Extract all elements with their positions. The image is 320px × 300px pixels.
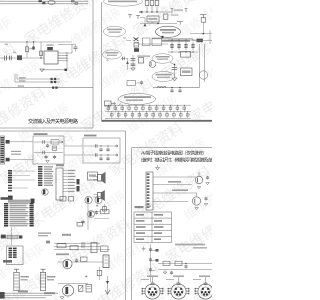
- crystal X901 chain: [134, 38, 139, 42]
- box R31: [101, 210, 110, 214]
- top-right panel bottom thick border: [102, 120, 213, 122]
- transistor Q13: [88, 211, 95, 218]
- wire: to junction: [126, 58, 128, 70]
- wire: down: [202, 22, 204, 33]
- transformer T801 above IC: [47, 47, 53, 50]
- M1 ground: [46, 160, 50, 162]
- diode D801 drop: [33, 42, 35, 50]
- connector XS2 block2: [8, 196, 13, 201]
- capacitor C805: [9, 56, 11, 61]
- module box M2: [83, 138, 120, 163]
- page background: [0, 0, 212, 300]
- tall box U12: [103, 255, 109, 268]
- capacitor C803 drop: [40, 42, 42, 58]
- cap C21: [95, 211, 98, 215]
- connector XS1 (left edge pin column): [0, 136, 5, 164]
- wire: bottom bus 2: [0, 295, 52, 297]
- capacitor C941: [170, 89, 173, 93]
- transistor Q10: [42, 189, 48, 195]
- wire: XS2 fanout: [12, 171, 35, 188]
- capacitor C810: [74, 44, 78, 51]
- label R801: [29, 48, 32, 50]
- capacitor bank columns: [170, 42, 194, 50]
- cloud note N4: [103, 50, 122, 59]
- cloud note N3: [104, 26, 126, 36]
- top-left panel bottom border: [0, 127, 93, 129]
- vertical rails right: [199, 44, 201, 88]
- wire: long video net: [153, 87, 200, 89]
- bead FB2: [51, 81, 53, 83]
- wire: stub up1: [16, 74, 18, 79]
- arrow A1: [144, 23, 147, 26]
- diode chain right: [107, 276, 109, 294]
- component R950: [197, 39, 203, 43]
- ground G21 under table: [142, 247, 146, 251]
- wire labels: [168, 181, 181, 183]
- component C950: [201, 18, 205, 23]
- module box M1: [33, 136, 64, 164]
- mid amp cluster: [87, 204, 89, 230]
- wire: out 3: [153, 192, 196, 194]
- bracket right: [177, 22, 183, 25]
- ground G3: [172, 78, 177, 81]
- IC U10 tall box: [56, 168, 63, 200]
- wire: amp links: [88, 211, 101, 213]
- wire: XS4 down: [11, 227, 13, 245]
- node diamond: [64, 69, 67, 71]
- ground G10: [60, 297, 64, 299]
- wire: AC input top rail line2: [0, 3, 88, 5]
- bottom-right panel left border: [131, 148, 133, 300]
- wire: bus h: [139, 11, 172, 13]
- wire: chain to right: [139, 43, 168, 45]
- plus marks: [85, 275, 87, 277]
- IC XS4 right pin column: [30, 203, 34, 227]
- capacitor C942: [178, 89, 181, 93]
- wire: pin bus down: [66, 53, 68, 70]
- DIN plug P3: [195, 283, 217, 299]
- component D901: [164, 14, 168, 19]
- node dots bus: [146, 11, 147, 12]
- M1 signal path 1: [34, 141, 63, 143]
- labels row: [137, 55, 150, 57]
- top-left panel right border: [92, 0, 94, 128]
- balloon N5: [152, 54, 173, 64]
- M1 comp label: [51, 140, 59, 144]
- M2 path1: [84, 145, 118, 147]
- capacitor bank C9xx: rails: [168, 39, 198, 41]
- wire: AC input top rail line1: [0, 0, 88, 2]
- connector XS5: [7, 246, 24, 265]
- bead FB10: [6, 140, 10, 144]
- table cell texts: [136, 214, 164, 240]
- IC XS4 left pin column: [4, 203, 8, 227]
- comp C22: [81, 220, 84, 224]
- box IF1: [181, 52, 191, 58]
- wire: rectified DC rail: [0, 41, 72, 43]
- electrolytic C20: [104, 204, 106, 214]
- label bus left: [0, 292, 5, 299]
- table label: [135, 206, 144, 208]
- left vertical chain: [150, 244, 152, 282]
- pin grid rails: [105, 104, 191, 106]
- arrow left end: [139, 11, 142, 14]
- table: voltage table: [134, 212, 172, 243]
- IC XS4 label rows between: [10, 203, 29, 226]
- wire: output line B-: [15, 81, 60, 83]
- M1 vert caps: [46, 144, 49, 148]
- wire: to box1 top: [10, 141, 33, 143]
- svg-text:交流输入及开关电源电路: 交流输入及开关电源电路: [28, 118, 78, 125]
- pin grid row2: [111, 111, 190, 118]
- capacitor C930: [172, 67, 177, 69]
- bracket TP3: [171, 9, 188, 14]
- arrow A2: [126, 61, 129, 64]
- transistor cluster QA: [195, 176, 203, 184]
- wire: output line B+: [17, 78, 60, 80]
- box label value1: [143, 38, 151, 46]
- output stage: transistor Q15: [62, 285, 73, 296]
- ground G2: [131, 68, 135, 71]
- transistor Q12: [95, 196, 102, 203]
- transistor Q901: [149, 61, 156, 68]
- wire: mid link: [151, 22, 153, 23]
- cluster: top-center filter boxes R9xx: [145, 1, 149, 6]
- wire: under-balloon net: [152, 38, 193, 40]
- component K1 with arrow: [105, 101, 112, 106]
- label VCC: [5, 44, 9, 46]
- speaker SP2: [94, 190, 105, 201]
- capacitor C804: [5, 56, 7, 61]
- balloon note N2 (ellipse with text): [156, 26, 181, 37]
- wire: long bottom net: [0, 87, 93, 89]
- wire: second cross: [193, 39, 212, 41]
- DIN plug P1: [142, 283, 164, 299]
- label nets: [11, 151, 21, 152]
- M1 cap 1: [42, 140, 44, 144]
- component cluster RV1: [127, 81, 136, 86]
- capacitor C806 electrolytic: [17, 55, 22, 60]
- chain C23: [99, 267, 101, 280]
- node J1: [26, 41, 27, 42]
- balloon note N1 (top, cropped): [104, 0, 143, 6]
- test point TP2: [136, 16, 140, 19]
- fuse F801 on AC rail: [39, 0, 42, 2]
- wire: to box1 bottom: [10, 159, 33, 161]
- M1 cap 2: [42, 151, 44, 155]
- component R920: [139, 58, 144, 63]
- crystal Y1 vertical: [14, 269, 19, 272]
- net label strip: [8, 200, 30, 203]
- wire: right stub: [209, 30, 211, 44]
- box label value2: [152, 38, 162, 46]
- ground GND1: [40, 69, 44, 72]
- M1 signal path 2: [34, 152, 63, 154]
- IC U801 pins right: [58, 53, 67, 61]
- M2 path2: [84, 154, 118, 156]
- audio out stage: transistor Q14: [63, 259, 72, 268]
- transistor cluster QB: [192, 197, 200, 205]
- resistor R801 drop: [26, 42, 28, 58]
- connector XP1 tall: [146, 172, 153, 210]
- bottom-left panel top border: [0, 130, 126, 132]
- speaker SP1: [93, 172, 106, 184]
- wire: tp link: [140, 18, 145, 24]
- wire: out 4: [153, 201, 188, 203]
- label row under wire: [162, 40, 190, 42]
- top-right wires: [158, 262, 212, 264]
- IC U801 power regulator: [44, 51, 58, 64]
- node J2: [33, 41, 34, 42]
- comp around Q14: [75, 259, 78, 263]
- watermark: [0, 0, 212, 300]
- resistor R20 row: [1, 235, 6, 239]
- inductor L930: [157, 86, 166, 87]
- bead FB1: [51, 78, 53, 80]
- wire: cross h: [190, 33, 212, 35]
- test point TP1: [128, 15, 132, 18]
- wires row y234-250: [62, 234, 71, 236]
- capacitor C921: [121, 57, 126, 61]
- wires M1->M2: [64, 145, 83, 147]
- pin junction dots: [66, 52, 67, 53]
- label row: [56, 253, 69, 255]
- IC XS4 big connector block: title: [1, 197, 12, 200]
- box delay line DL1: [181, 68, 193, 76]
- wire: cap top tie: [72, 43, 76, 45]
- comp R32: [86, 284, 91, 292]
- label net B+: [19, 77, 26, 79]
- node J3: [40, 57, 41, 58]
- DIN plug P2: [168, 283, 190, 299]
- bottom-left panel right border: [125, 131, 127, 300]
- label C806: [13, 52, 16, 54]
- wire: out 2: [153, 184, 192, 186]
- label T801: [47, 44, 54, 46]
- wire: junction to chain: [170, 63, 175, 79]
- M2 caps: [94, 144, 96, 148]
- M1 arrow 1: [60, 141, 63, 143]
- wire: out 1: [153, 176, 196, 178]
- top-right panel left border: [101, 2, 103, 121]
- svg-text:AV端子插座连接电路图（仅供维修）: AV端子插座连接电路图（仅供维修）: [141, 150, 207, 157]
- transistor Q902: [199, 71, 207, 79]
- wire: ground run: [42, 69, 66, 71]
- M1 res hatch: [53, 146, 57, 150]
- vertical chain x133 caps: [132, 55, 134, 68]
- svg-text:维修时：按标注尺寸、参数购买同类型插座及连线: 维修时：按标注尺寸、参数购买同类型插座及连线: [141, 157, 212, 164]
- bracket above plugs: [141, 277, 206, 283]
- right top: tee TP4: [200, 15, 207, 18]
- cloud note N6: [152, 72, 175, 82]
- wire: lower rail: [0, 57, 67, 59]
- res pair R30: [77, 179, 80, 184]
- wire: from cloud: [126, 39, 131, 42]
- pin grid row1: [107, 105, 186, 112]
- note text small: [38, 232, 51, 233]
- box U901 label: [147, 16, 159, 22]
- bead FB11: [6, 158, 10, 162]
- wire: stub up2: [14, 74, 16, 82]
- comp D20: [79, 285, 83, 291]
- capacitor C801 pair on rail: [72, 0, 75, 2]
- bead FB3: [52, 87, 54, 89]
- note text gray: [175, 244, 205, 246]
- bottom-right panel top border: [132, 147, 213, 149]
- balloon note N7 (big, above pin grid): [119, 93, 156, 104]
- connector XS2 pins: [8, 170, 12, 191]
- crystal Y2 vertical: [41, 269, 46, 272]
- transistor Q11: [85, 196, 92, 203]
- wire: leads down to bus: [147, 6, 157, 13]
- label net AC-DET: [18, 85, 25, 87]
- wire: bottom bus 3: [0, 297, 46, 299]
- wire: feedback loop top: [58, 44, 72, 53]
- wire: secondary out: [67, 52, 72, 54]
- wire: bottom bus 1: [0, 292, 58, 294]
- label net B-: [19, 80, 26, 82]
- comp row y196-204: [60, 196, 66, 201]
- ground G20: [156, 165, 160, 170]
- node cluster: [161, 36, 163, 38]
- line filter L801: [48, 1, 55, 5]
- connector XS3 bars: [38, 166, 42, 186]
- XS3 net labels: [44, 166, 54, 186]
- box U11: [88, 172, 98, 180]
